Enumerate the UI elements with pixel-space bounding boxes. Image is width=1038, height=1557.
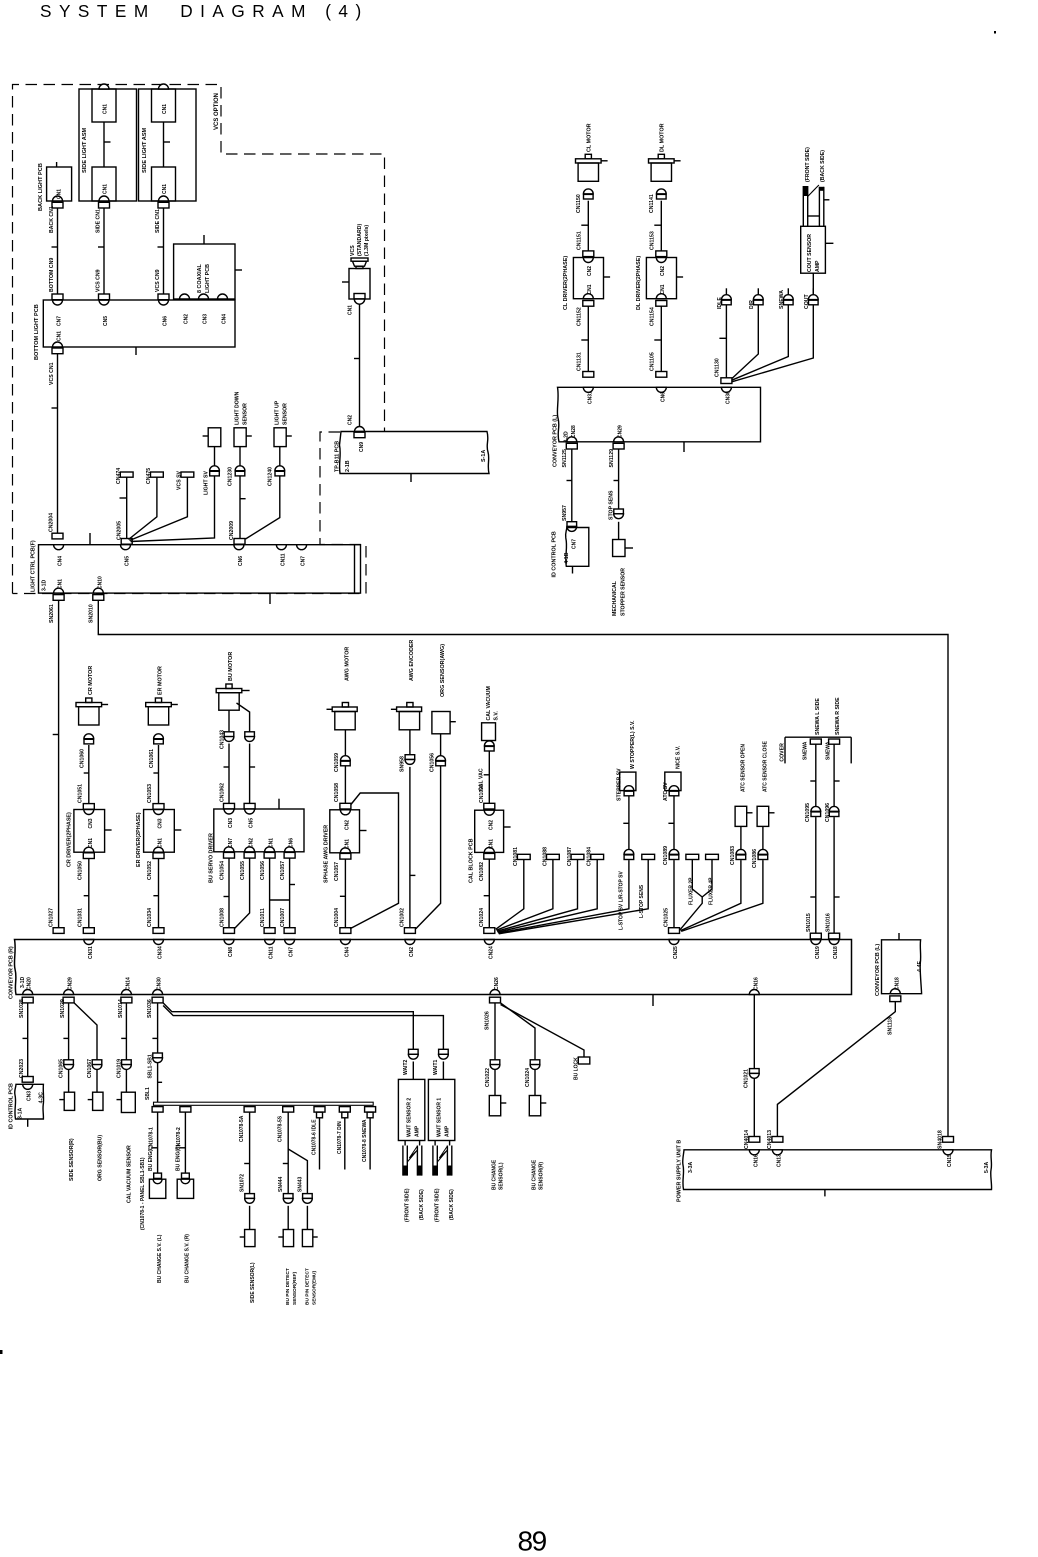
svg-text:SENSOR(EMU): SENSOR(EMU)	[311, 1270, 317, 1305]
svg-text:CN4013: CN4013	[767, 1130, 773, 1149]
svg-text:CN1151: CN1151	[577, 231, 583, 250]
svg-text:CN1043: CN1043	[220, 730, 226, 749]
svg-text:CN16: CN16	[753, 1154, 759, 1167]
svg-text:CN1: CN1	[58, 579, 64, 589]
BU CHANGE SENSOR(R)	[525, 1060, 546, 1190]
coil CN475	[129, 468, 164, 540]
svg-text:CN1: CN1	[57, 189, 63, 199]
svg-text:DIR: DIR	[749, 300, 755, 309]
connector CN4014 to POWER SUPPLY CN16	[744, 1130, 760, 1167]
svg-text:CN2: CN2	[348, 415, 354, 425]
connector CN1083	[681, 846, 746, 931]
svg-text:CN1051: CN1051	[77, 784, 83, 803]
svg-text:DL MOTOR: DL MOTOR	[660, 123, 666, 152]
svg-text:VCS CN1: VCS CN1	[49, 362, 55, 385]
svg-text:CN1078-6 IDLE: CN1078-6 IDLE	[312, 1119, 318, 1155]
ORG SENSOR(AWG)	[432, 644, 456, 756]
svg-text:SN1118: SN1118	[888, 1017, 894, 1035]
svg-text:SENSOR(REF): SENSOR(REF)	[292, 1272, 298, 1305]
stub CN1078-6 IDLE	[312, 1107, 325, 1170]
svg-text:WAIT2: WAIT2	[403, 1060, 409, 1075]
svg-text:CN30: CN30	[725, 391, 731, 404]
svg-text:BU ENG(R): BU ENG(R)	[176, 1144, 182, 1171]
svg-text:CN11: CN11	[280, 553, 286, 566]
svg-text:CR DRIVER(2PHASE): CR DRIVER(2PHASE)	[66, 812, 72, 867]
svg-text:AWG MOTOR: AWG MOTOR	[344, 647, 350, 681]
svg-text:MECHANICAL: MECHANICAL	[612, 580, 618, 616]
svg-text:CONVEYOR PCB (L): CONVEYOR PCB (L)	[553, 415, 559, 467]
BU CHANGE SENSOR(L)	[485, 1060, 506, 1190]
svg-text:CN1004: CN1004	[334, 908, 340, 927]
SIDE SENSOR(R)	[59, 997, 75, 1181]
svg-text:AWG ENCODER: AWG ENCODER	[409, 640, 415, 681]
svg-text:5-3A: 5-3A	[984, 1162, 990, 1173]
svg-text:(FRONT SIDE): (FRONT SIDE)	[805, 147, 811, 182]
COUT sensor bars (front/back side)	[803, 147, 829, 226]
svg-text:CN1061: CN1061	[149, 749, 155, 768]
wire SIDE CN1 (right) to BOTTOM LIGHT PCB	[155, 202, 169, 326]
connector CN1086	[681, 849, 768, 932]
W STOPPER(L) S.V.	[616, 720, 636, 849]
svg-text:CN1153: CN1153	[650, 231, 656, 250]
svg-text:CN1060: CN1060	[79, 749, 85, 768]
svg-text:SIDE LIGHT ASM: SIDE LIGHT ASM	[82, 127, 88, 173]
svg-text:SN1015: SN1015	[806, 913, 812, 932]
svg-text:CN1057: CN1057	[334, 862, 340, 881]
svg-text:CN1055: CN1055	[240, 861, 246, 880]
svg-text:CN2: CN2	[344, 820, 350, 830]
svg-text:ER MOTOR: ER MOTOR	[158, 666, 164, 695]
connector SN1026 fan	[484, 997, 584, 1060]
svg-text:ER DRIVER(2PHASE): ER DRIVER(2PHASE)	[136, 812, 142, 867]
svg-text:CN474: CN474	[116, 468, 122, 484]
svg-text:SN1125: SN1125	[562, 449, 568, 468]
svg-text:CN1141: CN1141	[649, 194, 655, 213]
svg-text:CN1081: CN1081	[513, 847, 519, 866]
svg-text:CN1088: CN1088	[542, 847, 548, 866]
svg-text:89: 89	[518, 1526, 547, 1557]
connector CN2005	[116, 521, 132, 544]
wire DL driver to CONVEYOR PCB (L) CN6	[650, 306, 667, 402]
svg-text:CN1019: CN1019	[116, 1059, 122, 1078]
svg-text:CN1062: CN1062	[220, 783, 226, 802]
svg-text:NICE S.V.: NICE S.V.	[676, 745, 682, 769]
svg-text:CN2005: CN2005	[116, 521, 122, 540]
svg-text:CN7: CN7	[228, 838, 234, 848]
connector L-STOP SV	[498, 849, 634, 933]
connector CN1062 plugs into BU SERVO DRIVER	[220, 783, 256, 809]
svg-text:VCS OPTION: VCS OPTION	[214, 93, 220, 130]
svg-text:CN1082: CN1082	[479, 862, 485, 881]
svg-text:CN2: CN2	[660, 266, 666, 276]
svg-text:SNEWA R SIDE: SNEWA R SIDE	[835, 697, 841, 735]
svg-text:CN2: CN2	[409, 947, 415, 957]
SIDE LIGHT ASM (right)	[139, 84, 197, 201]
svg-text:SNEWA: SNEWA	[779, 290, 785, 309]
svg-text:BU CHANGE: BU CHANGE	[491, 1159, 497, 1190]
svg-text:4-3C: 4-3C	[39, 1092, 45, 1103]
svg-text:IDLE: IDLE	[717, 297, 723, 309]
wire CN1057 to CONVEYOR PCB (R) CN7	[270, 858, 296, 957]
svg-text:CL MOTOR: CL MOTOR	[587, 123, 593, 152]
svg-text:CN26: CN26	[494, 977, 500, 990]
svg-text:CN1: CN1	[162, 184, 168, 194]
COUT SENSOR AMP	[801, 226, 834, 273]
svg-text:SN4018: SN4018	[938, 1130, 944, 1149]
wire camera CN1 to TP-B11 PCB CN2	[348, 305, 366, 453]
connector IDLE	[717, 288, 731, 378]
ATC SENSOR CLOSE	[757, 740, 774, 849]
AWG ENCODER	[391, 640, 422, 755]
SBL1 panel bus bar	[140, 1087, 373, 1230]
svg-text:CN2009: CN2009	[229, 521, 235, 540]
svg-text:CN34: CN34	[158, 946, 164, 959]
svg-text:BU ENG(L): BU ENG(L)	[148, 1145, 154, 1171]
title SYSTEM DIAGRAM (4)	[40, 1, 369, 21]
svg-text:SBL1-SB1: SBL1-SB1	[148, 1054, 154, 1078]
connector SN1118	[888, 996, 901, 1035]
svg-text:CN1089: CN1089	[663, 846, 669, 865]
svg-text:CN9: CN9	[359, 442, 365, 452]
coil VCS SV	[130, 470, 194, 540]
svg-text:(FRONT SIDE): (FRONT SIDE)	[435, 1188, 441, 1222]
CAL VACUUM S.V.	[479, 686, 500, 803]
connector CN4013 to POWER SUPPLY CN13	[767, 1002, 895, 1167]
svg-text:CN1: CN1	[488, 839, 494, 849]
connector CN1095 into CAL BLOCK PCB	[479, 784, 495, 809]
edge mark	[0, 1350, 3, 1354]
VCS (STANDARD) camera	[342, 224, 370, 315]
CONVEYOR PCB (R)	[8, 940, 851, 1007]
svg-text:ID CONTROL PCB: ID CONTROL PCB	[552, 531, 558, 577]
svg-text:CN7: CN7	[572, 539, 578, 549]
svg-text:CN1053: CN1053	[147, 784, 153, 803]
svg-text:S-1A: S-1A	[481, 450, 487, 462]
svg-text:CN1058: CN1058	[334, 783, 340, 802]
svg-text:(STANDARD): (STANDARD)	[357, 224, 363, 256]
svg-text:CN1021: CN1021	[744, 1069, 750, 1088]
svg-text:CN1130: CN1130	[715, 358, 721, 377]
svg-text:CN30: CN30	[157, 977, 163, 990]
svg-text:L-STOP SENS: L-STOP SENS	[639, 884, 645, 918]
svg-text:CN4: CN4	[58, 556, 64, 566]
svg-text:BU MOTOR: BU MOTOR	[228, 652, 234, 681]
svg-text:SENSOR: SENSOR	[282, 403, 288, 425]
svg-text:SYSTEM DIAGRAM (4): SYSTEM DIAGRAM (4)	[40, 1, 369, 21]
svg-text:CN3: CN3	[203, 314, 209, 324]
svg-text:SN443: SN443	[297, 1176, 303, 1192]
svg-text:CN5: CN5	[103, 316, 109, 326]
svg-text:SN958: SN958	[399, 756, 405, 772]
connector CN1002 to CONVEYOR PCB (R) CN2	[399, 908, 415, 957]
svg-text:BOTTOM CN9: BOTTOM CN9	[49, 258, 55, 292]
connector SN1015 to CONVEYOR PCB (R) CN19	[806, 913, 821, 959]
svg-text:SN957: SN957	[562, 505, 568, 521]
svg-text:CN1050: CN1050	[77, 861, 83, 880]
svg-text:CN1086: CN1086	[752, 849, 758, 868]
svg-text:S.V.: S.V.	[493, 711, 499, 721]
svg-text:CN31: CN31	[587, 391, 593, 404]
svg-text:CN6: CN6	[660, 392, 666, 402]
svg-text:BACK CN1: BACK CN1	[49, 206, 55, 233]
svg-text:CR MOTOR: CR MOTOR	[88, 666, 94, 695]
svg-text:LIGHT UP: LIGHT UP	[275, 400, 281, 425]
COVER bracket	[780, 737, 852, 763]
svg-text:BU SERVO DRIVER: BU SERVO DRIVER	[208, 833, 214, 883]
stub CN1084	[498, 847, 604, 932]
wire CN1054/CN1055 to CONVEYOR PCB (R) CN8	[220, 858, 250, 957]
connector DIR	[732, 288, 763, 378]
svg-text:VCS: VCS	[350, 245, 356, 256]
svg-text:BU LOCK: BU LOCK	[573, 1057, 579, 1080]
svg-text:(BACK SIDE): (BACK SIDE)	[820, 150, 826, 182]
wire CN1056 to CONVEYOR PCB (R) CN11	[260, 858, 275, 959]
svg-text:POWER SUPPLY UNIT B: POWER SUPPLY UNIT B	[677, 1140, 683, 1202]
svg-text:CN2: CN2	[249, 838, 255, 848]
connector SN1036 and WAIT feeders	[147, 997, 443, 1053]
connector CN1130 to CONVEYOR PCB (L) CN30	[715, 358, 732, 404]
connector COUT	[732, 273, 818, 382]
stub CN1087	[497, 847, 584, 931]
svg-text:CL DRIVER(2PHASE): CL DRIVER(2PHASE)	[563, 256, 569, 310]
svg-text:BU CHANGE S.V. (L): BU CHANGE S.V. (L)	[157, 1234, 163, 1283]
svg-text:CN7: CN7	[57, 316, 63, 326]
svg-text:CN5: CN5	[125, 556, 131, 566]
svg-text:CN1031: CN1031	[77, 908, 83, 927]
svg-text:CN8: CN8	[228, 947, 234, 957]
drop CN1078-1 BU CHANGE S.V.(L)	[148, 1107, 166, 1283]
svg-text:SNEWA: SNEWA	[803, 741, 809, 760]
svg-text:CN1: CN1	[587, 284, 593, 294]
TP-B11 PCB	[335, 432, 490, 483]
NICE S.V. (ATC SV)	[663, 745, 682, 849]
svg-text:BOTTOM LIGHT PCB: BOTTOM LIGHT PCB	[34, 304, 40, 360]
svg-text:CN1065: CN1065	[59, 1059, 65, 1078]
svg-text:CN7: CN7	[301, 556, 307, 566]
svg-text:CN3: CN3	[228, 818, 234, 828]
svg-text:CN18: CN18	[894, 977, 900, 990]
svg-text:WAIT SENSOR 1: WAIT SENSOR 1	[436, 1098, 442, 1137]
ATC SENSOR OPEN	[735, 744, 752, 850]
svg-text:3-1A: 3-1A	[18, 1108, 24, 1119]
svg-text:SIDE SENSOR(L): SIDE SENSOR(L)	[250, 1262, 256, 1303]
svg-text:SIDE LIGHT ASM: SIDE LIGHT ASM	[142, 127, 148, 173]
svg-text:CN1131: CN1131	[577, 352, 583, 371]
svg-text:3-1D: 3-1D	[42, 580, 48, 591]
svg-text:SNEWA: SNEWA	[825, 741, 831, 760]
svg-text:SBL1: SBL1	[145, 1087, 151, 1100]
connector CN2009	[229, 521, 245, 544]
svg-text:BU CHANGE S.V. (R): BU CHANGE S.V. (R)	[185, 1234, 191, 1283]
svg-text:VCS SV: VCS SV	[177, 470, 183, 490]
ORG SENSOR(BU)	[74, 1003, 103, 1181]
svg-text:CN3: CN3	[88, 818, 94, 828]
svg-text:CN4: CN4	[222, 314, 228, 324]
CONVEYOR PCB (L) lower	[875, 933, 923, 996]
svg-text:CN1057: CN1057	[280, 861, 286, 880]
svg-text:CN6: CN6	[163, 316, 169, 326]
svg-text:VCS CN9: VCS CN9	[96, 269, 102, 292]
svg-text:SN1016: SN1016	[826, 913, 832, 932]
svg-text:CN1: CN1	[269, 838, 275, 848]
page number 89	[518, 1526, 547, 1557]
SPHASE AWG DRIVER	[323, 810, 366, 883]
connector CN1059	[334, 753, 350, 803]
svg-text:CN6: CN6	[289, 838, 295, 848]
branch to BU PIN DETECT SENSOR(EMU)	[288, 1149, 318, 1305]
svg-text:CN1087: CN1087	[567, 847, 573, 866]
svg-text:CN3: CN3	[27, 1091, 33, 1101]
svg-text:CN1034: CN1034	[147, 908, 153, 927]
svg-text:CN1095: CN1095	[479, 784, 485, 803]
svg-text:CAL BLOCK PCB: CAL BLOCK PCB	[468, 838, 474, 883]
connector CN1089	[663, 846, 679, 928]
svg-text:CN1: CN1	[57, 331, 63, 341]
svg-text:CN19: CN19	[815, 946, 821, 959]
svg-text:CN29: CN29	[618, 425, 624, 438]
svg-text:(BACK SIDE): (BACK SIDE)	[419, 1189, 425, 1220]
svg-text:CN18: CN18	[833, 946, 839, 959]
svg-text:DL DRIVER(2PHASE): DL DRIVER(2PHASE)	[636, 256, 642, 310]
svg-text:SIDE CN1: SIDE CN1	[155, 209, 161, 233]
svg-text:CN1024: CN1024	[479, 908, 485, 927]
svg-text:3-3A: 3-3A	[688, 1162, 694, 1173]
svg-text:CN475: CN475	[146, 468, 152, 484]
svg-text:CN20: CN20	[27, 977, 33, 990]
svg-text:SIDE SENSOR(R): SIDE SENSOR(R)	[69, 1138, 75, 1181]
svg-text:CN2023: CN2023	[19, 1059, 25, 1078]
wire LIGHT CTRL CN1 down to CONVEYOR PCB (R) CN27	[49, 600, 64, 933]
svg-text:SN1129: SN1129	[609, 449, 615, 468]
svg-text:CN13: CN13	[776, 1154, 782, 1167]
wire CL driver to CONVEYOR PCB (L) CN31	[577, 306, 594, 404]
svg-text:CN1095: CN1095	[805, 803, 811, 822]
svg-text:STOPPER SENSOR: STOPPER SENSOR	[621, 568, 627, 616]
svg-text:SN2061: SN2061	[49, 604, 55, 623]
wire SPHASE bypass loop	[350, 793, 399, 929]
BU MOTOR	[216, 652, 249, 732]
svg-text:CN1054: CN1054	[220, 861, 226, 880]
svg-text:CN10: CN10	[97, 576, 103, 589]
svg-text:CN2: CN2	[184, 314, 190, 324]
svg-text:ATC SENSOR OPEN: ATC SENSOR OPEN	[740, 744, 746, 792]
svg-text:CN1240: CN1240	[268, 467, 274, 486]
connector CN1095 (SNEWA L)	[805, 803, 821, 933]
svg-text:CN1078-8 SNEWA: CN1078-8 SNEWA	[362, 1119, 368, 1162]
svg-text:CN1008: CN1008	[220, 908, 226, 927]
coil CN474	[116, 468, 133, 539]
svg-text:CN1078-5A: CN1078-5A	[239, 1115, 245, 1142]
svg-text:AMP: AMP	[444, 1125, 450, 1137]
WAIT SENSOR 2 AMP	[398, 1049, 425, 1222]
wire BACK CN1 to BOTTOM LIGHT PCB	[49, 202, 63, 326]
svg-text:COUT: COUT	[804, 293, 810, 309]
solenoid LIGHT SV	[131, 428, 221, 542]
CL MOTOR / CL DRIVER(2PHASE)	[563, 123, 610, 326]
svg-text:SN444: SN444	[278, 1176, 284, 1192]
svg-text:CN24: CN24	[488, 946, 494, 959]
svg-text:AMP: AMP	[414, 1125, 420, 1137]
svg-text:SNEWA L SIDE: SNEWA L SIDE	[815, 698, 821, 735]
svg-text:CN1007: CN1007	[280, 908, 286, 927]
svg-text:(CN1078-1 - PANEL SBL1-SB1): (CN1078-1 - PANEL SBL1-SB1)	[140, 1157, 146, 1230]
BOTTOM LIGHT PCB	[34, 300, 235, 360]
connector CN1096 (SNEWA R)	[825, 803, 840, 933]
connector CN4018 to POWER SUPPLY CN15	[938, 1130, 954, 1167]
VCS OPTION dashed boundary	[13, 85, 385, 594]
svg-text:BU CHANGE: BU CHANGE	[531, 1159, 537, 1190]
LIGHT UP SENSOR	[246, 400, 292, 539]
svg-text:ORG SENSOR(BU): ORG SENSOR(BU)	[97, 1135, 103, 1181]
svg-text:CN16: CN16	[753, 977, 759, 990]
svg-text:(1.3M pixels): (1.3M pixels)	[364, 225, 370, 256]
svg-text:LIGHT DOWN: LIGHT DOWN	[235, 391, 241, 425]
svg-text:4-1B: 4-1B	[564, 552, 570, 563]
svg-text:TP-B11 PCB: TP-B11 PCB	[335, 441, 341, 472]
8 COAXIAL LIGHT PCB	[174, 235, 242, 324]
SNEWA L SIDE switch	[803, 698, 822, 807]
connector CN1043 (x2)	[220, 730, 256, 804]
svg-text:ORG SENSOR(AWG): ORG SENSOR(AWG)	[440, 644, 446, 697]
svg-text:BU PIN DETECT: BU PIN DETECT	[285, 1268, 291, 1305]
svg-text:COVER: COVER	[780, 743, 786, 762]
svg-text:CN4: CN4	[344, 947, 350, 957]
svg-text:SENSOR: SENSOR	[242, 403, 248, 425]
BACK LIGHT PCB	[38, 162, 72, 211]
svg-text:CN1: CN1	[158, 838, 164, 848]
connector SN2010 (LIGHT CTRL CN10)	[89, 595, 104, 623]
CAL BLOCK PCB	[468, 810, 510, 883]
svg-text:CN1: CN1	[660, 284, 666, 294]
svg-text:CN1067: CN1067	[87, 1059, 93, 1078]
svg-text:(BACK SIDE): (BACK SIDE)	[449, 1189, 455, 1220]
svg-text:CONVEYOR PCB (L): CONVEYOR PCB (L)	[875, 944, 881, 996]
svg-text:CN1022: CN1022	[485, 1068, 491, 1087]
svg-text:ATC SENSOR CLOSE: ATC SENSOR CLOSE	[762, 740, 768, 792]
svg-text:VCS CN9: VCS CN9	[155, 269, 161, 292]
svg-text:SN1014: SN1014	[118, 999, 124, 1018]
svg-text:CN1052: CN1052	[147, 861, 153, 880]
svg-text:CN29: CN29	[68, 977, 74, 990]
svg-text:SN2010: SN2010	[89, 604, 95, 623]
svg-text:WAIT SENSOR 2: WAIT SENSOR 2	[406, 1098, 412, 1137]
svg-text:CN5: CN5	[249, 818, 255, 828]
BU SERVO DRIVER bottom connectors	[220, 852, 296, 880]
ER MOTOR / ER DRIVER(2PHASE)	[136, 666, 181, 959]
connector CN1025 to CONVEYOR PCB (R) CN25	[663, 908, 679, 959]
svg-text:W STOPPER(L) S.V.: W STOPPER(L) S.V.	[630, 720, 636, 769]
svg-text:SN1072: SN1072	[240, 1174, 246, 1192]
stub CN1078-7 DIN	[337, 1107, 350, 1170]
svg-text:CN1011: CN1011	[260, 908, 266, 927]
svg-text:CN28: CN28	[571, 425, 577, 438]
connector SN958	[399, 755, 415, 928]
svg-text:CN1150: CN1150	[576, 194, 582, 213]
wire SIDE CN1 (left) to BOTTOM LIGHT PCB	[96, 202, 110, 326]
svg-text:BACK LIGHT PCB: BACK LIGHT PCB	[38, 163, 44, 211]
svg-text:CN1084: CN1084	[587, 847, 593, 866]
svg-text:SPHASE AWG DRIVER: SPHASE AWG DRIVER	[323, 825, 329, 883]
dot top right	[994, 31, 996, 34]
svg-text:CN4014: CN4014	[744, 1130, 750, 1149]
svg-text:SN1029: SN1029	[60, 999, 66, 1018]
drop CN1078-2 BU CHANGE S.V.(R)	[176, 1107, 194, 1283]
svg-text:SENSOR(L): SENSOR(L)	[498, 1162, 504, 1190]
CONVEYOR PCB (L) upper	[553, 387, 761, 467]
svg-text:LIGHT CTRL PCB(F): LIGHT CTRL PCB(F)	[31, 540, 37, 592]
AWG MOTOR	[327, 647, 358, 756]
svg-text:SN1026: SN1026	[484, 1011, 490, 1030]
